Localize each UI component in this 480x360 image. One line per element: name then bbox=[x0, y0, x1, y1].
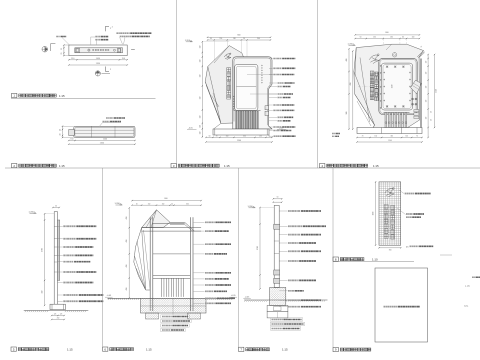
svg-text:800: 800 bbox=[385, 32, 388, 34]
svg-text:70: 70 bbox=[416, 136, 418, 138]
svg-text:125: 125 bbox=[60, 314, 63, 316]
svg-text:150: 150 bbox=[70, 139, 73, 141]
svg-text:1100: 1100 bbox=[392, 85, 394, 89]
svg-text:150: 150 bbox=[259, 136, 262, 138]
svg-text:50: 50 bbox=[277, 197, 279, 199]
svg-text:1:10: 1:10 bbox=[372, 258, 378, 262]
svg-text:50: 50 bbox=[243, 38, 245, 40]
svg-text:350: 350 bbox=[243, 136, 246, 138]
svg-text:50: 50 bbox=[360, 37, 362, 39]
svg-text:150: 150 bbox=[148, 203, 151, 205]
svg-text:1:15: 1:15 bbox=[224, 164, 230, 168]
svg-text:1200: 1200 bbox=[103, 139, 107, 141]
svg-text:1:15: 1:15 bbox=[59, 164, 65, 168]
svg-text:150: 150 bbox=[71, 58, 74, 60]
svg-text:-0.05: -0.05 bbox=[188, 127, 192, 129]
svg-text:150: 150 bbox=[122, 58, 125, 60]
svg-text:150: 150 bbox=[375, 136, 378, 138]
svg-text:250: 250 bbox=[57, 318, 60, 320]
svg-text:150: 150 bbox=[199, 46, 201, 49]
svg-text:1700: 1700 bbox=[257, 246, 259, 250]
svg-text:450: 450 bbox=[350, 83, 352, 86]
svg-text:450: 450 bbox=[126, 288, 128, 291]
svg-text:70: 70 bbox=[268, 136, 270, 138]
svg-text:800: 800 bbox=[237, 35, 240, 37]
svg-text:60: 60 bbox=[402, 37, 404, 39]
svg-text:50: 50 bbox=[55, 205, 57, 207]
svg-text:150: 150 bbox=[199, 125, 201, 128]
svg-text:50: 50 bbox=[431, 111, 433, 113]
svg-text:50: 50 bbox=[431, 119, 433, 121]
svg-text:700: 700 bbox=[389, 249, 392, 251]
svg-text:300: 300 bbox=[186, 203, 189, 205]
svg-text:1350: 1350 bbox=[96, 63, 100, 65]
svg-text:50: 50 bbox=[171, 203, 173, 205]
svg-text:150: 150 bbox=[199, 60, 201, 63]
svg-text:1500: 1500 bbox=[388, 140, 392, 142]
svg-text:150: 150 bbox=[199, 97, 201, 100]
svg-text:50: 50 bbox=[209, 136, 211, 138]
svg-text:2: 2 bbox=[110, 69, 111, 71]
svg-text:450: 450 bbox=[42, 291, 44, 294]
svg-text:150: 150 bbox=[425, 61, 427, 64]
svg-text:150: 150 bbox=[373, 37, 376, 39]
svg-text:50: 50 bbox=[136, 203, 138, 205]
svg-text:160: 160 bbox=[390, 37, 393, 39]
svg-text:1050: 1050 bbox=[96, 58, 100, 60]
svg-text:1.05: 1.05 bbox=[465, 285, 470, 288]
svg-text:160: 160 bbox=[162, 203, 165, 205]
svg-text:450: 450 bbox=[126, 217, 128, 220]
svg-text:150: 150 bbox=[405, 136, 408, 138]
svg-text:2250: 2250 bbox=[436, 89, 438, 93]
svg-text:70: 70 bbox=[216, 136, 218, 138]
svg-text:1:15: 1:15 bbox=[59, 94, 65, 98]
svg-text:40: 40 bbox=[60, 134, 62, 136]
svg-text:450: 450 bbox=[126, 240, 128, 243]
svg-text:25: 25 bbox=[61, 48, 63, 50]
svg-text:150: 150 bbox=[219, 38, 222, 40]
svg-text:1500: 1500 bbox=[373, 212, 375, 216]
svg-text:1700: 1700 bbox=[42, 248, 44, 252]
svg-text:350: 350 bbox=[390, 136, 393, 138]
svg-text:500: 500 bbox=[346, 112, 348, 115]
svg-text:40: 40 bbox=[60, 129, 62, 131]
svg-text:400: 400 bbox=[346, 59, 348, 62]
svg-text:1:15: 1:15 bbox=[67, 348, 73, 352]
svg-text:1500: 1500 bbox=[237, 140, 241, 142]
svg-text:1:15: 1:15 bbox=[146, 348, 152, 352]
svg-text:1:15: 1:15 bbox=[282, 348, 288, 352]
svg-text:1350: 1350 bbox=[100, 142, 104, 144]
svg-text:125: 125 bbox=[54, 314, 57, 316]
svg-text:1:15: 1:15 bbox=[373, 164, 379, 168]
svg-text:N71: N71 bbox=[464, 305, 469, 308]
svg-text:25: 25 bbox=[61, 53, 63, 55]
svg-text:800: 800 bbox=[164, 198, 167, 200]
svg-text:150: 150 bbox=[425, 117, 427, 120]
svg-text:450: 450 bbox=[126, 265, 128, 268]
svg-text:150: 150 bbox=[425, 86, 427, 89]
svg-text:150: 150 bbox=[425, 72, 427, 75]
svg-text:150: 150 bbox=[199, 116, 201, 119]
svg-text:150: 150 bbox=[226, 136, 229, 138]
svg-text:2: 2 bbox=[112, 26, 113, 28]
svg-text:150: 150 bbox=[425, 100, 427, 103]
svg-text:100: 100 bbox=[412, 37, 415, 39]
svg-text:70: 70 bbox=[362, 136, 364, 138]
svg-text:300: 300 bbox=[257, 38, 260, 40]
svg-text:150: 150 bbox=[199, 75, 201, 78]
svg-text:50: 50 bbox=[210, 38, 212, 40]
svg-text:150: 150 bbox=[199, 132, 201, 135]
svg-text:160: 160 bbox=[233, 38, 236, 40]
